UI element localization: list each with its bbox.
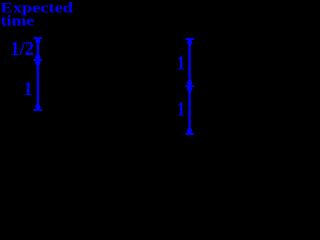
lower shaft — [188, 86, 190, 134]
arrowhead down above middle bar — [187, 80, 192, 85]
left dimension line — [34, 37, 43, 111]
middle bar — [34, 59, 43, 61]
arrowhead down above bottom bar — [35, 104, 40, 109]
svg-text:1: 1 — [177, 53, 185, 74]
svg-text:1: 1 — [177, 100, 185, 121]
arrowhead up below middle bar — [35, 61, 40, 66]
upper shaft — [37, 38, 39, 60]
arrowhead down above bottom bar — [187, 128, 192, 133]
arrowhead up below top bar — [187, 40, 192, 45]
svg-text:1/2: 1/2 — [10, 38, 34, 60]
arrowhead up below top bar — [35, 39, 40, 44]
arrowhead down above middle bar — [35, 54, 40, 59]
bottom bar — [185, 133, 193, 135]
top bar — [34, 37, 43, 39]
middle bar — [185, 85, 193, 87]
svg-text:1: 1 — [24, 79, 33, 100]
top bar — [185, 38, 193, 40]
arrowhead up below middle bar — [187, 87, 192, 92]
lower shaft — [37, 60, 39, 110]
upper shaft — [188, 39, 190, 86]
bottom bar — [34, 109, 43, 111]
svg-text:time: time — [1, 14, 35, 30]
right dimension line — [185, 38, 193, 135]
